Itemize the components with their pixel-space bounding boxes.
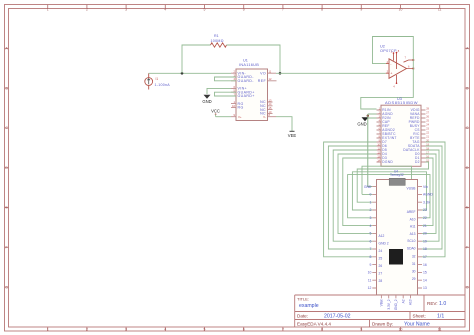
svg-text:16: 16 bbox=[423, 263, 427, 267]
svg-text:4: 4 bbox=[164, 7, 166, 11]
svg-text:10: 10 bbox=[399, 328, 403, 332]
VCC flag bbox=[211, 109, 220, 117]
wire bus ADC D7-D3 to Teensy 8..4 bbox=[324, 142, 377, 257]
svg-text:example: example bbox=[299, 303, 319, 309]
border ticks sides bbox=[5, 48, 470, 287]
svg-text:1.0: 1.0 bbox=[439, 301, 446, 307]
pin names left bbox=[238, 71, 255, 109]
svg-text:REV:: REV: bbox=[427, 301, 438, 306]
MCU module U4 Teensy32 bbox=[364, 169, 433, 310]
ground flag near U1 bbox=[202, 95, 211, 105]
svg-text:19: 19 bbox=[423, 239, 427, 243]
pin numbers bbox=[232, 70, 235, 118]
svg-text:13: 13 bbox=[423, 286, 427, 290]
svg-text:100MΩ: 100MΩ bbox=[211, 39, 224, 43]
svg-text:Your Name: Your Name bbox=[404, 322, 430, 328]
svg-text:5: 5 bbox=[204, 328, 206, 332]
wire VO to U2 +in bbox=[276, 72, 386, 74]
svg-text:24: 24 bbox=[379, 249, 383, 253]
VEE flag bbox=[288, 131, 297, 138]
wire VUSB under box to Teensy 0 bbox=[362, 166, 418, 194]
svg-text:Vin: Vin bbox=[423, 185, 428, 189]
svg-text:1: 1 bbox=[47, 7, 49, 11]
svg-text:AGND: AGND bbox=[423, 193, 433, 197]
border ticks bottom bbox=[48, 327, 440, 331]
svg-text:F: F bbox=[6, 246, 8, 250]
svg-text:8: 8 bbox=[321, 7, 323, 11]
svg-text:6: 6 bbox=[243, 7, 245, 11]
svg-text:9: 9 bbox=[360, 7, 362, 11]
svg-text:1: 1 bbox=[47, 328, 49, 332]
svg-text:11: 11 bbox=[368, 278, 372, 282]
svg-text:Drawn By:: Drawn By: bbox=[372, 322, 393, 327]
wire bus ADC right to Teensy 17..21 bbox=[422, 142, 445, 257]
svg-text:32: 32 bbox=[412, 255, 416, 259]
svg-text:GUARD+: GUARD+ bbox=[238, 94, 255, 98]
svg-text:5: 5 bbox=[204, 7, 206, 11]
svg-text:7: 7 bbox=[282, 328, 284, 332]
pin names right bbox=[258, 71, 267, 115]
left pin stubs bbox=[231, 73, 236, 117]
svg-text:2: 2 bbox=[370, 208, 372, 212]
svg-text:31: 31 bbox=[412, 262, 416, 266]
svg-text:1/1: 1/1 bbox=[437, 314, 444, 320]
svg-text:REF: REF bbox=[258, 79, 267, 83]
svg-text:1: 1 bbox=[370, 200, 372, 204]
svg-text:25: 25 bbox=[379, 257, 383, 261]
svg-text:9: 9 bbox=[370, 263, 372, 267]
wire VIN+ to GND bbox=[207, 88, 231, 94]
svg-text:23: 23 bbox=[423, 208, 427, 212]
svg-text:V-: V- bbox=[263, 115, 266, 119]
svg-text:10: 10 bbox=[368, 271, 372, 275]
svg-text:12: 12 bbox=[368, 286, 372, 290]
svg-text:30: 30 bbox=[412, 270, 416, 274]
border row letters bbox=[5, 47, 469, 290]
svg-text:VO: VO bbox=[260, 71, 266, 75]
wire GUARD- loop bbox=[215, 77, 237, 81]
wire Teensy 23 under box to Teensy 2 bbox=[352, 172, 426, 210]
svg-text:7: 7 bbox=[282, 7, 284, 11]
svg-text:EasyEDA V4.4.4: EasyEDA V4.4.4 bbox=[297, 322, 331, 327]
pins bbox=[386, 53, 414, 84]
svg-text:7: 7 bbox=[370, 247, 372, 251]
resistor R1 bbox=[211, 34, 227, 47]
title block bbox=[295, 295, 465, 327]
svg-text:GND: GND bbox=[357, 121, 366, 126]
svg-text:21: 21 bbox=[423, 224, 427, 228]
right pin stubs bbox=[268, 73, 277, 117]
wire VCC to V+ bbox=[216, 116, 231, 118]
svg-text:Date:: Date: bbox=[297, 314, 308, 319]
svg-text:D2: D2 bbox=[415, 160, 420, 164]
svg-text:F: F bbox=[466, 246, 468, 250]
svg-text:V+: V+ bbox=[238, 115, 242, 119]
wire source to U1 VIN- bbox=[149, 72, 231, 74]
node junction at 182,73.3 bbox=[181, 72, 184, 75]
svg-text:A10: A10 bbox=[410, 217, 416, 221]
svg-text:GND_2: GND_2 bbox=[394, 299, 398, 310]
svg-text:R1: R1 bbox=[214, 34, 219, 38]
wire Teensy 22 under box to Teensy 3 bbox=[348, 175, 430, 218]
svg-text:VCC: VCC bbox=[211, 109, 220, 114]
op-amp U1 INA116UB bbox=[231, 59, 277, 121]
ground flag near U3 bbox=[357, 117, 368, 126]
current source I1 bbox=[145, 73, 170, 89]
svg-text:A13: A13 bbox=[410, 232, 416, 236]
svg-text:26: 26 bbox=[379, 264, 383, 268]
svg-text:ADS8515IBDW: ADS8515IBDW bbox=[385, 100, 418, 105]
svg-text:GND: GND bbox=[202, 99, 211, 104]
svg-text:SCL0: SCL0 bbox=[407, 239, 415, 243]
node junction adc gnd bbox=[367, 115, 369, 117]
svg-text:TITLE:: TITLE: bbox=[297, 297, 309, 302]
svg-text:Teensy32: Teensy32 bbox=[390, 173, 404, 177]
svg-text:5: 5 bbox=[370, 232, 372, 236]
wire R1 left bbox=[182, 45, 211, 73]
svg-text:GND 2: GND 2 bbox=[379, 242, 389, 246]
svg-text:I1: I1 bbox=[156, 77, 159, 81]
svg-text:2: 2 bbox=[86, 328, 88, 332]
svg-text:3.3V_2: 3.3V_2 bbox=[387, 299, 391, 309]
svg-text:SDA0: SDA0 bbox=[407, 247, 416, 251]
wire GUARD+ loop bbox=[215, 92, 237, 96]
svg-text:20: 20 bbox=[423, 232, 427, 236]
feedback wire U2 bbox=[361, 37, 414, 110]
svg-text:3.3V: 3.3V bbox=[423, 200, 431, 204]
svg-text:29: 29 bbox=[412, 277, 416, 281]
wire R1 right bbox=[227, 45, 281, 73]
svg-text:14: 14 bbox=[423, 278, 427, 282]
svg-text:GND: GND bbox=[364, 185, 372, 189]
svg-text:9: 9 bbox=[360, 328, 362, 332]
svg-text:10: 10 bbox=[399, 7, 403, 11]
svg-text:8: 8 bbox=[370, 255, 372, 259]
svg-text:3: 3 bbox=[370, 216, 372, 220]
svg-text:A11: A11 bbox=[410, 225, 416, 229]
svg-text:18: 18 bbox=[423, 247, 427, 251]
svg-text:22: 22 bbox=[423, 216, 427, 220]
svg-text:3: 3 bbox=[125, 7, 127, 11]
svg-text:11: 11 bbox=[438, 328, 442, 332]
svg-text:3: 3 bbox=[125, 328, 127, 332]
svg-text:A13: A13 bbox=[409, 299, 413, 305]
svg-text:15: 15 bbox=[423, 271, 427, 275]
svg-text:RG: RG bbox=[238, 106, 244, 110]
svg-text:2017-05-02: 2017-05-02 bbox=[324, 314, 351, 320]
svg-text:A12: A12 bbox=[379, 234, 385, 238]
svg-text:G: G bbox=[466, 285, 469, 289]
wire gnd vertical to teensy GND pin bbox=[368, 114, 373, 187]
svg-text:GUARD-: GUARD- bbox=[238, 79, 255, 83]
svg-text:1-100nA: 1-100nA bbox=[155, 83, 171, 87]
node junction at 280,73.3 bbox=[279, 72, 282, 75]
svg-text:28: 28 bbox=[379, 279, 383, 283]
svg-text:OP07CP: OP07CP bbox=[380, 49, 397, 53]
svg-text:4: 4 bbox=[164, 328, 166, 332]
ADC U3 ADS8515IBDW bbox=[377, 97, 430, 166]
svg-text:2: 2 bbox=[86, 7, 88, 11]
svg-text:27: 27 bbox=[379, 272, 383, 276]
op-amp U2 OP07CP bbox=[380, 45, 414, 89]
wire ADC D2 under box to Teensy 1 bbox=[357, 162, 428, 202]
svg-text:17: 17 bbox=[423, 255, 427, 259]
svg-text:A2: A2 bbox=[401, 299, 405, 303]
svg-text:4: 4 bbox=[370, 224, 372, 228]
svg-text:6: 6 bbox=[243, 328, 245, 332]
svg-text:Sheet:: Sheet: bbox=[413, 314, 426, 319]
svg-text:INA116UB: INA116UB bbox=[239, 63, 259, 67]
svg-text:AREF: AREF bbox=[407, 210, 416, 214]
svg-text:6: 6 bbox=[370, 239, 372, 243]
svg-text:G: G bbox=[5, 285, 8, 289]
wire AGND to gnd junction bbox=[368, 114, 377, 118]
svg-text:U1: U1 bbox=[243, 59, 248, 63]
svg-text:VEE: VEE bbox=[288, 133, 297, 138]
svg-text:DGND: DGND bbox=[382, 160, 393, 164]
wire V- to VEE bbox=[276, 117, 292, 131]
svg-text:8: 8 bbox=[321, 328, 323, 332]
svg-text:0: 0 bbox=[370, 193, 372, 197]
svg-text:VBat: VBat bbox=[380, 299, 384, 306]
svg-text:VUSB: VUSB bbox=[407, 186, 417, 190]
svg-text:11: 11 bbox=[438, 7, 442, 11]
border ticks top bbox=[48, 5, 440, 9]
